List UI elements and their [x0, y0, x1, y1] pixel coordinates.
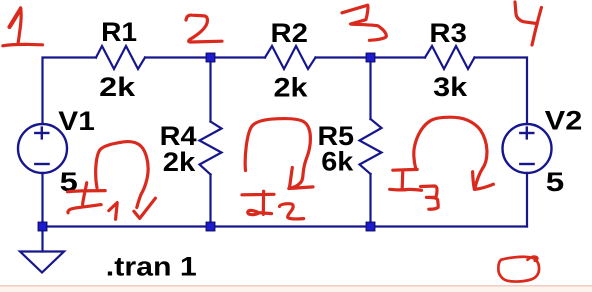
- mesh current loop I3: [414, 117, 487, 189]
- label I3: [390, 169, 438, 209]
- mesh current loop I2: [245, 119, 310, 189]
- wire top left corner to R1: [18, 46, 552, 273]
- svg-text:R3: R3: [429, 18, 467, 48]
- wire R1 to R2: [145, 56, 265, 58]
- node number 3: [342, 5, 386, 40]
- wire R2 to R3: [316, 56, 426, 58]
- junction node 2: [206, 53, 215, 62]
- resistor R1: [96, 46, 145, 69]
- wire node2 down: [209, 58, 211, 122]
- svg-text:R2: R2: [271, 18, 309, 48]
- voltage source V1 circle: [18, 124, 67, 173]
- wire R3 to right corner: [475, 58, 528, 125]
- V1 plus: [35, 132, 48, 134]
- svg-text:V2: V2: [545, 106, 583, 136]
- svg-text:6k: 6k: [321, 146, 353, 176]
- V2 plus: [520, 132, 533, 134]
- svg-text:3k: 3k: [433, 72, 467, 102]
- voltage source V2 circle: [503, 124, 552, 173]
- node number 4: [515, 2, 541, 45]
- mesh current loop I1: [96, 142, 148, 208]
- wire R4 to bottom: [209, 175, 211, 227]
- arrowhead I3: [473, 172, 494, 190]
- resistor R5: [360, 119, 382, 174]
- junction bottom node2: [206, 222, 215, 231]
- V2 minus: [520, 163, 533, 165]
- svg-text:5: 5: [546, 167, 565, 197]
- label I1: [68, 183, 118, 220]
- wire V2 bottom: [526, 173, 528, 227]
- node 0 scribble: [498, 257, 539, 282]
- node number 2: [186, 15, 222, 42]
- V1 minus: [35, 163, 48, 165]
- ground stem: [41, 227, 43, 252]
- svg-text:.tran 1: .tran 1: [106, 251, 197, 281]
- resistor R4: [200, 122, 222, 175]
- ground: [20, 252, 64, 273]
- svg-text:2k: 2k: [99, 72, 135, 102]
- junction node 3: [366, 53, 375, 62]
- svg-text:2k: 2k: [274, 73, 308, 103]
- junction bottom node3: [366, 222, 375, 231]
- junction bottom left node 0: [38, 222, 47, 231]
- svg-text:2k: 2k: [163, 147, 196, 177]
- bottom wire: [43, 225, 528, 227]
- bottom strip line: [0, 285, 592, 287]
- arrowhead I2: [289, 168, 313, 189]
- node number 1: [10, 9, 21, 27]
- wire R5 to bottom: [369, 174, 371, 227]
- label I2: [242, 191, 304, 219]
- resistor R3: [425, 46, 475, 69]
- resistor R2: [265, 46, 316, 69]
- arrowhead I1: [134, 198, 156, 218]
- svg-text:V1: V1: [58, 106, 95, 136]
- wire node3 down: [369, 58, 371, 120]
- wire V1 bottom: [41, 173, 43, 227]
- svg-text:R1: R1: [101, 17, 137, 47]
- bottom strip: [0, 287, 592, 292]
